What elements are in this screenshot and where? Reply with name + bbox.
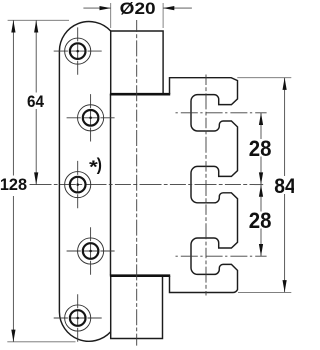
dimension line upper segment: [260, 185, 262, 212]
svg-text:28: 28: [249, 136, 272, 161]
extension line bottom: [7, 341, 75, 343]
64 dimension line upper segment: [35, 20, 37, 92]
128 arrowhead up: [11, 20, 15, 32]
hinge leaf plate outline (left view, rounded ends): [59, 22, 110, 342]
centerline: hook column (vertical dash-dot): [205, 75, 207, 296]
64 dimension line lower segment: [35, 109, 37, 185]
extension line bottom: [238, 291, 291, 293]
centerline: bottom hook horizontal: [176, 255, 267, 257]
svg-text:64: 64: [27, 94, 44, 112]
dimension line left part: [83, 7, 110, 9]
128 dimension line lower segment: [12, 196, 14, 342]
screw hole 5 (bottom) with crosshair centerlines: [54, 294, 102, 341]
centerline: main horizontal through middle hole and middle hook: [30, 184, 264, 186]
svg-text:84: 84: [274, 174, 294, 198]
svg-text:): ): [97, 155, 102, 175]
128 arrowhead down: [11, 330, 15, 342]
hinge leaf plate right edge: [110, 94, 112, 276]
centerline: top hook horizontal: [176, 112, 267, 114]
dimension line right part: [163, 7, 192, 9]
dimension line lower segment: [260, 157, 262, 185]
frame-part profile with three hook cutouts (right view): [170, 78, 238, 293]
upper knuckle cylinder outline: [111, 31, 163, 94]
upper knuckle bottom section line (thick): [110, 93, 170, 96]
dimension 28 (middle hook to bottom hook spacing): [249, 185, 272, 257]
extension line top: [237, 77, 291, 79]
screw hole 1 (top) with crosshair centerlines: [54, 27, 102, 74]
arrowhead up: [259, 113, 263, 125]
arrowhead down: [259, 244, 263, 256]
dimension 128 (leaf height) and 64 (top to middle hole): [0, 20, 76, 342]
arrowhead up: [283, 78, 287, 90]
64 arrowhead up: [34, 20, 38, 32]
screw hole 2 with crosshair centerlines: [67, 94, 115, 141]
lower knuckle top section line (thick): [110, 274, 170, 277]
arrowhead down: [283, 280, 287, 292]
dimension Ø20 (knuckle diameter): [83, 0, 191, 28]
dimension 84 (frame profile height): [237, 78, 296, 293]
64 arrowhead down: [34, 172, 38, 184]
dimension line lower segment: [284, 194, 286, 292]
svg-text:128: 128: [0, 176, 27, 194]
dimension line upper segment: [284, 78, 286, 176]
extension line right: [162, 3, 164, 28]
lower knuckle cylinder outline: [111, 276, 163, 339]
arrowhead pointing left: [163, 6, 174, 10]
extension line left: [110, 3, 112, 28]
svg-text:Ø20: Ø20: [120, 0, 156, 18]
dimension line upper segment: [260, 113, 262, 139]
arrowhead up: [259, 185, 263, 197]
arrowhead down: [259, 172, 263, 184]
screw hole 3 (middle, marked *) with vertical crosshair: [65, 161, 91, 208]
screw hole 4 with crosshair centerlines: [67, 227, 115, 274]
extension line top: [8, 19, 69, 21]
dimension 28 (top hook to middle hook spacing): [249, 113, 272, 185]
centerline: knuckle cylinder axis (vertical dash-dot): [136, 20, 138, 347]
dimension line lower segment: [260, 229, 262, 257]
128 dimension line upper segment: [12, 20, 14, 175]
svg-text:28: 28: [249, 208, 272, 233]
arrowhead pointing right: [100, 6, 111, 10]
